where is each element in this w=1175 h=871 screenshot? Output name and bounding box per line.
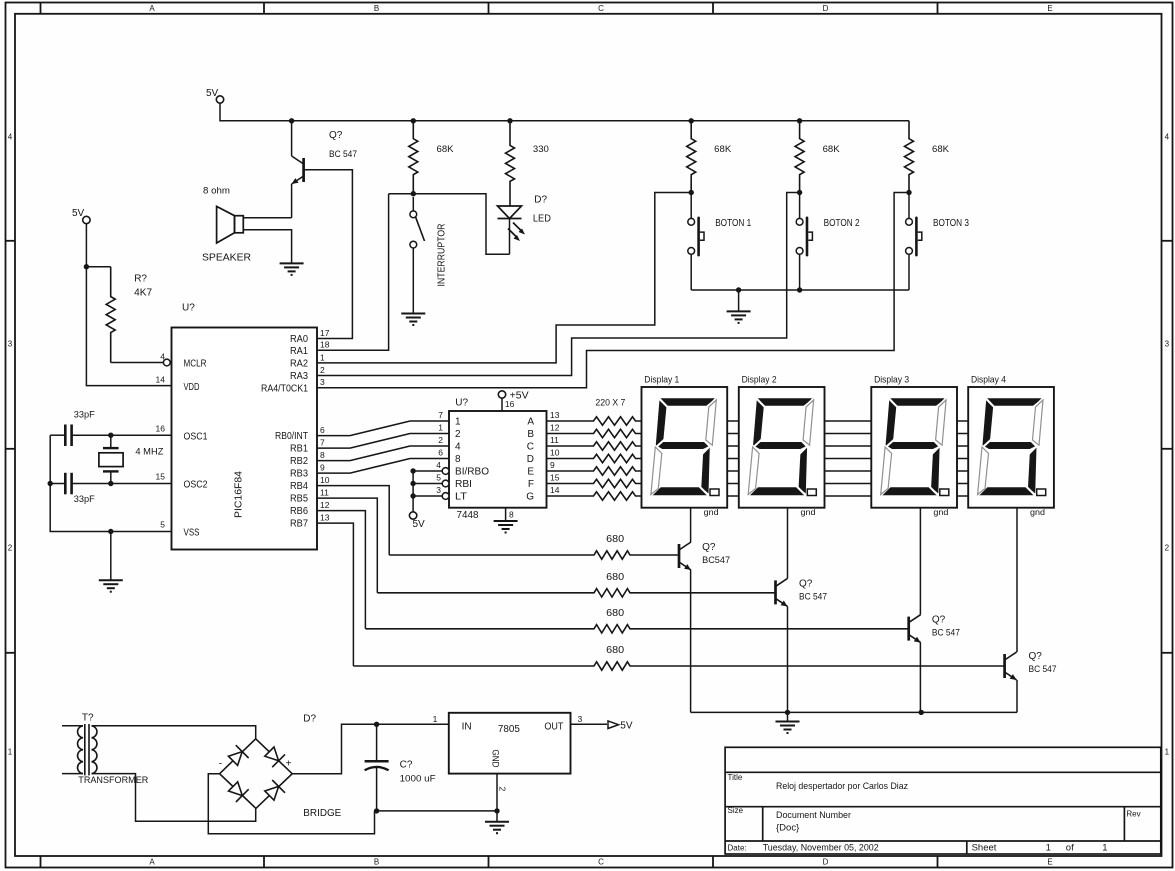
wire boton 3 to gnd bus: [908, 255, 910, 291]
svg-text:C: C: [598, 858, 604, 867]
wire 7448 pin8 gnd: [505, 508, 507, 521]
ground (displays): [776, 722, 800, 734]
svg-text:OSC1: OSC1: [184, 432, 208, 443]
wire bus to ground: [738, 290, 740, 311]
svg-text:4: 4: [455, 442, 461, 453]
wire to ground: [496, 811, 498, 822]
wire boton1 node to PIC RA2: [317, 193, 691, 363]
ground (VSS): [99, 580, 123, 592]
svg-text:RA3: RA3: [290, 371, 308, 382]
svg-text:5V: 5V: [413, 519, 426, 530]
svg-text:G: G: [526, 492, 534, 503]
wire seg C d3-d4: [957, 445, 968, 447]
wire seg A d1-d2: [727, 420, 739, 422]
resistor 220 (segment F): [547, 479, 642, 487]
junction: [919, 710, 924, 715]
svg-text:17: 17: [320, 328, 330, 338]
wire RB4 down: [317, 486, 389, 555]
svg-text:14: 14: [156, 375, 166, 385]
svg-text:BRIDGE: BRIDGE: [303, 808, 341, 819]
svg-text:2: 2: [438, 435, 443, 445]
wire primary top stub: [62, 725, 83, 727]
svg-text:68K: 68K: [823, 144, 841, 155]
resistor 330: [506, 121, 515, 206]
wire LT: [413, 495, 442, 497]
svg-text:13: 13: [550, 410, 560, 420]
wire 7805 OUT: [571, 723, 608, 725]
svg-text:2: 2: [320, 365, 325, 375]
svg-text:2: 2: [498, 787, 508, 792]
wire boton 2 to gnd bus: [799, 255, 801, 291]
wire cap to 7805 gnd: [377, 810, 497, 812]
pushbutton BOTON 2: [799, 193, 801, 219]
svg-text:TRANSFORMER: TRANSFORMER: [78, 775, 148, 786]
svg-text:1: 1: [433, 714, 438, 724]
svg-text:E: E: [1047, 858, 1052, 867]
svg-text:OSC2: OSC2: [184, 480, 208, 491]
svg-text:RB3: RB3: [290, 469, 308, 480]
svg-text:RA0: RA0: [290, 334, 308, 345]
svg-text:RB4: RB4: [290, 481, 308, 492]
junction: [411, 118, 416, 123]
svg-text:-: -: [219, 759, 222, 770]
svg-text:Date:: Date:: [728, 844, 747, 853]
terminal 5V (7448 inputs): [409, 512, 416, 519]
svg-text:SPEAKER: SPEAKER: [202, 253, 251, 264]
svg-text:15: 15: [156, 472, 166, 482]
resistor 680 (base 1): [389, 551, 679, 559]
wire cap1 left: [50, 434, 65, 436]
svg-text:16: 16: [505, 399, 515, 409]
svg-text:3: 3: [1165, 340, 1170, 349]
junction: [906, 190, 911, 195]
svg-text:1: 1: [455, 417, 461, 428]
svg-text:1: 1: [1165, 748, 1170, 757]
wire secondary bottom to bridge: [92, 774, 256, 822]
svg-text:Display 3: Display 3: [874, 375, 909, 386]
wire seg B d1-d2: [727, 433, 739, 435]
resistor 680 (base 3): [365, 625, 908, 633]
terminal 5V top: [216, 96, 223, 103]
junction: [108, 481, 113, 486]
wire 7805 GND pin: [496, 774, 498, 811]
wire boton2 node to PIC RA3: [317, 193, 800, 376]
svg-text:T?: T?: [82, 713, 94, 724]
svg-text:14: 14: [550, 485, 560, 495]
junction: [797, 287, 802, 292]
svg-text:1: 1: [320, 352, 325, 362]
IC U? PIC16F84: [172, 328, 318, 550]
ground (interruptor): [401, 314, 425, 326]
svg-text:12: 12: [550, 423, 560, 433]
svg-text:RA4/T0CK1: RA4/T0CK1: [261, 383, 308, 394]
wire RB5 down: [317, 498, 377, 593]
wire seg D d2-d3: [825, 458, 872, 460]
svg-text:RB5: RB5: [290, 494, 308, 505]
svg-text:RBI: RBI: [455, 479, 472, 490]
svg-text:BOTON 2: BOTON 2: [824, 218, 860, 229]
wire to switch: [412, 197, 414, 211]
junction: [507, 118, 512, 123]
junction: [797, 118, 802, 123]
svg-text:E: E: [1047, 4, 1052, 13]
wire Q1 emitter to speaker: [291, 184, 293, 218]
wire 4K7 top: [86, 266, 110, 268]
svg-text:9: 9: [320, 463, 325, 473]
svg-text:BC 547: BC 547: [1029, 664, 1057, 675]
svg-text:3: 3: [8, 340, 13, 349]
wire Q4 emitter down: [1016, 680, 1018, 712]
svg-text:of: of: [1066, 843, 1074, 854]
svg-text:BOTON 3: BOTON 3: [933, 218, 969, 229]
svg-text:1: 1: [1046, 843, 1051, 854]
wire Q1 emitter down: [690, 570, 692, 712]
display Display 4 (7-segment): [968, 387, 1054, 508]
wire bridge + to 7805 IN: [292, 724, 449, 773]
terminal +5V (7448 pin16): [498, 391, 505, 398]
wire BI/RBO: [413, 470, 442, 472]
svg-text:BC 547: BC 547: [799, 591, 827, 602]
svg-text:220 X 7: 220 X 7: [595, 398, 625, 409]
svg-text:U?: U?: [455, 398, 468, 409]
wire RB3 to 7448 input: [317, 459, 449, 474]
resistor 68K (boton 1 pull-up): [687, 121, 696, 193]
svg-text:7: 7: [438, 410, 443, 420]
junction: [494, 808, 499, 813]
svg-text:Display 2: Display 2: [742, 375, 777, 386]
title block: [725, 747, 1161, 854]
svg-text:gnd: gnd: [1030, 507, 1045, 517]
crystal 4 MHZ: [99, 435, 123, 483]
svg-text:5: 5: [436, 473, 441, 483]
junction: [374, 722, 379, 727]
wire seg E d1-d2: [727, 470, 739, 472]
svg-text:Display 4: Display 4: [971, 375, 1006, 386]
resistor 680 (base 2): [377, 589, 775, 597]
svg-text:U?: U?: [182, 303, 195, 314]
wire RB0 to 7448 input: [317, 421, 449, 436]
svg-text:680: 680: [606, 534, 624, 545]
svg-text:B: B: [374, 4, 379, 13]
wire primary bottom stub: [62, 773, 83, 775]
resistor 220 (segment D): [547, 454, 642, 462]
svg-text:7: 7: [320, 438, 325, 448]
svg-text:gnd: gnd: [801, 507, 816, 517]
junction: [689, 190, 694, 195]
wire VSS to ground: [110, 532, 112, 581]
svg-text:RB6: RB6: [290, 506, 308, 517]
svg-text:5V: 5V: [72, 208, 85, 219]
svg-text:3: 3: [578, 714, 583, 724]
off-page connector 5V out: [608, 721, 619, 729]
pushbutton BOTON 1: [690, 193, 692, 219]
svg-text:5V: 5V: [206, 88, 219, 99]
svg-text:B: B: [527, 429, 534, 440]
svg-text:Q?: Q?: [702, 542, 716, 553]
capacitor 33pF (top): [65, 425, 71, 447]
wire speaker bottom to ground: [243, 230, 291, 264]
wire emitter ground bus: [691, 711, 1017, 713]
svg-text:Rev: Rev: [1126, 810, 1140, 819]
svg-text:6: 6: [320, 425, 325, 435]
wire seg B d2-d3: [825, 433, 872, 435]
resistor 68K (interruptor pull-up): [409, 121, 418, 193]
svg-text:33pF: 33pF: [74, 494, 95, 505]
wire 5V rail: [220, 103, 909, 121]
wire switch to ground: [412, 248, 414, 313]
svg-text:D?: D?: [534, 195, 547, 206]
svg-text:Reloj despertador por Carlos D: Reloj despertador por Carlos Diaz: [776, 781, 908, 792]
svg-text:+: +: [286, 759, 292, 770]
svg-text:680: 680: [606, 608, 624, 619]
svg-text:OUT: OUT: [544, 722, 563, 733]
svg-text:68K: 68K: [437, 144, 455, 155]
display Display 2 (7-segment): [739, 387, 825, 508]
diode (bridge lower-right): [265, 786, 279, 800]
junction: [410, 481, 415, 486]
ground (buttons): [727, 311, 751, 323]
wire seg G d3-d4: [957, 495, 968, 497]
svg-text:RB1: RB1: [290, 444, 308, 455]
resistor 68K (boton 3 pull-up): [905, 121, 914, 193]
svg-text:RB2: RB2: [290, 456, 308, 467]
svg-text:5: 5: [160, 520, 165, 530]
svg-text:8: 8: [455, 454, 461, 465]
svg-text:RB0/INT: RB0/INT: [275, 431, 308, 442]
junction: [736, 287, 741, 292]
svg-text:18: 18: [320, 340, 330, 350]
wire RB6 down: [317, 511, 365, 629]
svg-text:680: 680: [606, 572, 624, 583]
junction: [48, 481, 53, 486]
svg-text:10: 10: [320, 475, 330, 485]
svg-text:C: C: [598, 4, 604, 13]
wire secondary top to bridge: [92, 726, 256, 739]
svg-text:A: A: [149, 858, 155, 867]
wire Q1 base to RA0: [304, 170, 353, 339]
resistor 220 (segment G): [547, 492, 642, 500]
svg-text:BC 547: BC 547: [932, 628, 960, 639]
transistor Q? BC547 (display 1): [679, 542, 691, 570]
wire left rail to VSS: [50, 435, 171, 531]
ground (power supply): [485, 822, 509, 834]
wire seg A d2-d3: [825, 420, 872, 422]
transistor Q? BC 547 (speaker driver): [292, 156, 304, 184]
diode (bridge lower-left): [229, 782, 243, 796]
transistor Q? BC547 (display 3): [909, 615, 921, 643]
wire seg G d1-d2: [727, 495, 739, 497]
svg-text:Display 1: Display 1: [644, 375, 679, 386]
junction: [689, 118, 694, 123]
svg-text:LED: LED: [533, 214, 551, 225]
svg-text:MCLR: MCLR: [184, 359, 207, 370]
svg-text:BC 547: BC 547: [329, 149, 357, 160]
wire Q2 emitter down: [787, 606, 789, 712]
speaker SPEAKER 8 ohm: [217, 206, 244, 243]
wire boton3 node to PIC RA4: [317, 193, 909, 388]
svg-text:330: 330: [533, 144, 549, 155]
svg-text:Q?: Q?: [1029, 651, 1043, 662]
svg-text:gnd: gnd: [933, 507, 948, 517]
svg-text:9: 9: [550, 460, 555, 470]
wire boton 1 to gnd bus: [690, 255, 692, 291]
svg-text:12: 12: [320, 500, 330, 510]
svg-text:13: 13: [320, 513, 330, 523]
wire LED cathode down: [509, 219, 511, 255]
wire display2 gnd to collector: [787, 508, 789, 579]
wire Q3 emitter down: [919, 643, 921, 713]
wire interruptor node to LED cathode: [413, 194, 509, 255]
svg-text:BI/RBO: BI/RBO: [455, 467, 489, 478]
svg-text:Q?: Q?: [932, 615, 946, 626]
junction: [108, 433, 113, 438]
wire lamp-test bus: [412, 471, 414, 512]
svg-text:5V: 5V: [620, 720, 633, 731]
svg-text:1000 uF: 1000 uF: [400, 774, 436, 785]
wire bus to ground: [787, 712, 789, 721]
wire seg B d3-d4: [957, 433, 968, 435]
svg-text:7805: 7805: [498, 724, 520, 735]
wire seg E d3-d4: [957, 470, 968, 472]
junction: [410, 493, 415, 498]
svg-text:Size: Size: [728, 806, 744, 815]
svg-text:C?: C?: [400, 760, 413, 771]
wire seg F d2-d3: [825, 483, 872, 485]
wire OSC2: [72, 483, 172, 485]
wire button ground bus: [691, 289, 909, 291]
svg-text:BC547: BC547: [702, 555, 730, 566]
junction: [289, 118, 294, 123]
svg-text:11: 11: [550, 435, 559, 445]
svg-text:33pF: 33pF: [74, 410, 95, 421]
wire display4 gnd to collector: [1016, 508, 1018, 652]
svg-text:68K: 68K: [714, 144, 732, 155]
wire cap top: [376, 724, 378, 761]
diode (bridge upper-right): [265, 747, 279, 761]
resistor 220 (segment A): [547, 417, 642, 425]
wire +5V to 7448: [501, 398, 503, 411]
junction: [785, 710, 790, 715]
svg-text:Document Number: Document Number: [776, 810, 851, 821]
terminal 5V left: [83, 216, 90, 223]
bridge rectifier D? BRIDGE: [220, 739, 293, 809]
resistor 680 (base 4): [353, 662, 1004, 670]
svg-text:PIC16F84: PIC16F84: [232, 471, 244, 518]
svg-text:gnd: gnd: [704, 507, 719, 517]
svg-text:11: 11: [320, 488, 329, 498]
svg-text:2: 2: [1165, 544, 1170, 553]
wire RB7 down: [317, 523, 353, 666]
svg-text:BOTON 1: BOTON 1: [715, 218, 751, 229]
wire RB1 to 7448 input: [317, 434, 449, 449]
svg-text:4: 4: [8, 133, 13, 142]
junction: [411, 191, 416, 196]
svg-text:D: D: [823, 4, 829, 13]
regulator 7805: [449, 713, 571, 774]
svg-text:D: D: [823, 858, 829, 867]
junction: [374, 808, 379, 813]
display Display 3 (7-segment): [871, 387, 957, 508]
svg-text:Title: Title: [728, 773, 743, 782]
svg-text:7448: 7448: [457, 509, 479, 521]
wire speaker top terminal: [243, 217, 291, 219]
wire seg D d3-d4: [957, 458, 968, 460]
svg-text:VSS: VSS: [184, 528, 200, 539]
svg-text:8: 8: [509, 510, 514, 520]
junction: [410, 468, 415, 473]
wire Q1 collector to rail: [291, 121, 293, 156]
resistor 220 (segment C): [547, 442, 642, 450]
svg-text:Q?: Q?: [799, 578, 813, 589]
wire seg E d2-d3: [825, 470, 872, 472]
wire interruptor node left stub: [389, 193, 414, 195]
svg-text:RA1: RA1: [290, 346, 308, 357]
svg-text:R?: R?: [134, 274, 147, 285]
svg-text:8: 8: [320, 450, 325, 460]
wire display1 gnd to collector: [690, 508, 692, 542]
svg-text:A: A: [149, 4, 155, 13]
svg-text:A: A: [527, 417, 534, 428]
wire seg G d2-d3: [825, 495, 872, 497]
wire seg F d1-d2: [727, 483, 739, 485]
resistor R? 4K7: [106, 267, 115, 363]
svg-text:B: B: [374, 858, 379, 867]
svg-text:RA2: RA2: [290, 359, 308, 370]
diode (bridge upper-left): [228, 752, 242, 766]
svg-text:LT: LT: [455, 492, 467, 503]
wire RB2 to 7448 input: [317, 446, 449, 461]
wire bridge - to cap bottom: [208, 774, 374, 834]
wire display3 gnd to collector: [919, 508, 921, 615]
junction: [84, 264, 89, 269]
IC U? 7448: [449, 411, 547, 508]
wire 5V to VDD: [86, 224, 171, 386]
svg-text:2: 2: [8, 544, 13, 553]
wire node to PIC RA1: [317, 194, 389, 351]
svg-text:RB7: RB7: [290, 519, 308, 530]
wire seg D d1-d2: [727, 458, 739, 460]
svg-text:3: 3: [320, 377, 325, 387]
svg-text:4K7: 4K7: [134, 288, 152, 299]
LED D?: [498, 206, 523, 238]
svg-text:Q?: Q?: [329, 130, 343, 141]
wire MCLR: [111, 362, 164, 364]
ground (7448): [494, 521, 518, 533]
svg-text:GND: GND: [491, 750, 501, 768]
svg-text:1: 1: [438, 423, 443, 433]
capacitor 33pF (bottom): [65, 473, 71, 495]
wire cap2 left: [50, 483, 65, 485]
wire cap bottom: [376, 768, 378, 811]
wire seg C d2-d3: [825, 445, 872, 447]
svg-text:2: 2: [455, 429, 461, 440]
svg-text:E: E: [527, 467, 534, 478]
svg-text:D: D: [527, 454, 534, 465]
svg-text:1: 1: [8, 748, 13, 757]
svg-text:4 MHZ: 4 MHZ: [135, 447, 163, 458]
display Display 1 (7-segment): [642, 387, 728, 508]
wire seg F d3-d4: [957, 483, 968, 485]
svg-text:Tuesday, November 05, 2002: Tuesday, November 05, 2002: [763, 843, 879, 854]
svg-text:8 ohm: 8 ohm: [203, 186, 230, 197]
wire seg C d1-d2: [727, 445, 739, 447]
resistor 220 (segment B): [547, 429, 642, 437]
svg-text:10: 10: [550, 448, 560, 458]
resistor 220 (segment E): [547, 467, 642, 475]
svg-text:F: F: [528, 479, 534, 490]
svg-text:3: 3: [436, 485, 441, 495]
svg-text:D?: D?: [303, 714, 316, 725]
